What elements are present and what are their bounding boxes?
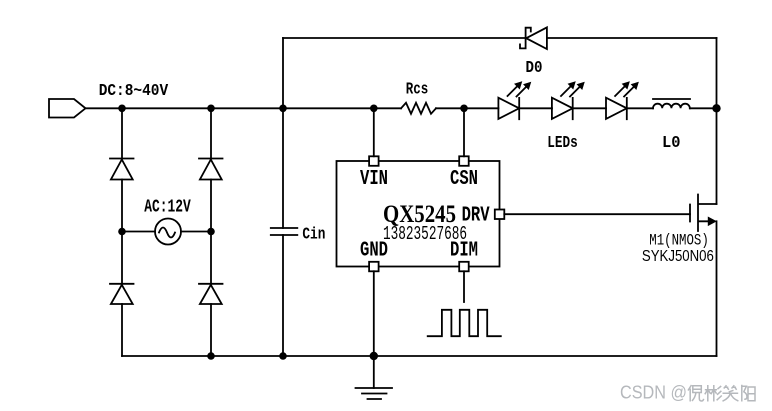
- diode bridge top-right: [199, 159, 223, 180]
- resistor Rcs: [401, 103, 436, 114]
- inductor L0: [653, 99, 690, 108]
- transistor M1 NMOS: [690, 195, 717, 232]
- wire CSN to rail: [463, 108, 465, 156]
- wire DIM stub: [463, 271, 465, 302]
- wire VIN to rail: [373, 108, 375, 156]
- svg-text:CSDN @: CSDN @: [620, 382, 687, 403]
- watermark CSDN: [620, 382, 755, 403]
- IC U1 QX5245 body: [337, 161, 500, 267]
- pin DRV: [495, 210, 505, 220]
- label AC:12V: [144, 197, 191, 218]
- pin CSN: [459, 156, 469, 166]
- label D0: [526, 59, 543, 78]
- ground symbol: [356, 388, 393, 399]
- diode bridge top-left: [110, 159, 134, 180]
- svg-text:Rcs: Rcs: [406, 81, 429, 100]
- LED 2: [552, 82, 584, 119]
- svg-text:GND: GND: [360, 239, 388, 262]
- input connector: [49, 99, 86, 118]
- label LEDs: [547, 134, 578, 153]
- wire AC source left: [122, 231, 155, 233]
- label SYKJ50N06: [642, 248, 714, 265]
- diode bridge bottom-right: [199, 284, 223, 304]
- label L0: [662, 134, 681, 153]
- IC phone number 13823527686: [383, 223, 467, 245]
- wire bridge left branch: [121, 108, 123, 356]
- LED 1: [498, 82, 530, 119]
- IC part number QX5245: [383, 201, 456, 228]
- wire top rail: [283, 37, 717, 39]
- wire DRV to gate: [504, 213, 690, 215]
- svg-text:SYKJ50N06: SYKJ50N06: [642, 248, 714, 265]
- label DC:8~40V: [99, 82, 169, 101]
- label M1(NMOS): [649, 232, 709, 250]
- pin VIN: [369, 156, 379, 166]
- svg-text:DC:8~40V: DC:8~40V: [99, 82, 169, 101]
- diode bridge bottom-left: [110, 284, 134, 304]
- capacitor Cin: [271, 228, 298, 235]
- svg-text:D0: D0: [526, 59, 543, 78]
- wire bottom rail (ground net): [122, 355, 717, 357]
- wire main rail: [86, 107, 717, 109]
- svg-text:LEDs: LEDs: [547, 134, 578, 153]
- label Rcs: [406, 81, 429, 100]
- pin label DRV: [462, 205, 490, 228]
- pin label CSN: [450, 168, 478, 191]
- pin DIM: [459, 262, 469, 272]
- pin label VIN: [360, 168, 388, 191]
- wire bridge right branch: [210, 108, 212, 356]
- LED 3: [606, 82, 638, 119]
- svg-text:VIN: VIN: [360, 168, 388, 191]
- wire right vertical: [716, 38, 718, 356]
- wire left vertical node VIN-input: [282, 38, 284, 356]
- wire GND to bottom rail: [373, 271, 375, 388]
- PWM waveform at DIM: [428, 310, 501, 336]
- pin label DIM: [450, 239, 478, 262]
- label Cin: [302, 226, 325, 245]
- svg-text:M1(NMOS): M1(NMOS): [649, 232, 709, 250]
- schottky diode D0: [520, 27, 547, 49]
- AC source: [155, 219, 181, 245]
- svg-text:L0: L0: [662, 134, 681, 153]
- svg-text:DIM: DIM: [450, 239, 478, 262]
- pin GND: [369, 262, 379, 272]
- svg-text:AC:12V: AC:12V: [144, 197, 191, 218]
- pin label GND: [360, 239, 388, 262]
- svg-text:Cin: Cin: [302, 226, 325, 245]
- svg-text:CSN: CSN: [450, 168, 478, 191]
- wire AC source right: [181, 231, 211, 233]
